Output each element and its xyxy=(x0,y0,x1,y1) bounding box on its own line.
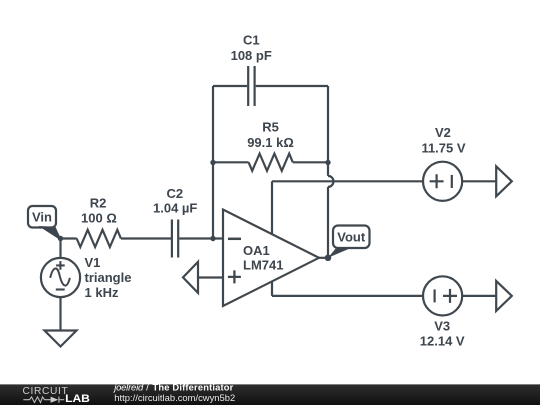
svg-text:CIRCUIT: CIRCUIT xyxy=(23,386,68,397)
svg-text:http://circuitlab.com/cwyn5b2: http://circuitlab.com/cwyn5b2 xyxy=(114,392,235,403)
svg-text:LAB: LAB xyxy=(65,393,90,405)
